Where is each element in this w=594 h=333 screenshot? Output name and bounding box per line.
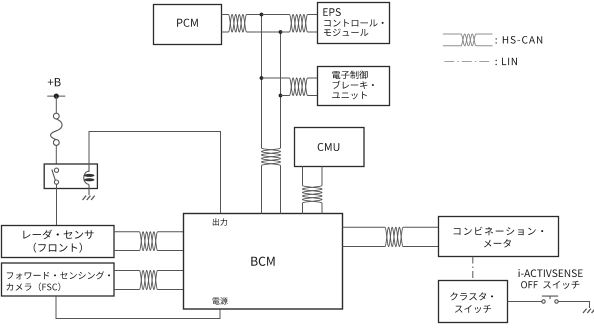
- LIN wire combination meter to cluster switch: [472, 257, 474, 282]
- wire BCM power to FSC camera: [56, 296, 220, 319]
- label brake unit line3: [332, 92, 367, 100]
- box EPS control module: [318, 3, 390, 44]
- label OFF switch line2: [521, 281, 579, 289]
- relay box: [44, 164, 97, 189]
- twisted pair radar sensor to BCM (HS-CAN): [114, 232, 184, 251]
- pin label 出力 (output): [213, 218, 227, 225]
- label radar sensor line1: [23, 230, 93, 240]
- wire BCM output to relay coil: [89, 132, 221, 214]
- legend label HS-CAN: [496, 36, 543, 44]
- box cluster switch: [439, 281, 508, 323]
- label FSC line2: [7, 283, 61, 292]
- twisted pair FSC to BCM (HS-CAN): [114, 271, 184, 290]
- label BCM: [251, 257, 274, 266]
- label combination meter line1: [454, 227, 544, 236]
- box PCM: [154, 5, 222, 45]
- label cluster switch line2: [455, 305, 491, 313]
- label CMU: [318, 143, 340, 151]
- label radar sensor line2: [34, 243, 82, 253]
- junction node on CAN-L at PCM tap: [279, 30, 283, 34]
- legend HS-CAN twisted-pair symbol: [443, 34, 493, 46]
- junction node on CAN-H at brake tap: [260, 76, 264, 80]
- label EPS line2: [324, 19, 383, 26]
- label i-ACTIVSENSE line1: [519, 269, 583, 277]
- label cluster switch line1: [450, 292, 493, 300]
- label FSC line1: [7, 271, 110, 279]
- wire cluster switch to OFF switch: [508, 301, 542, 303]
- legend LIN dash-dot line: [444, 61, 492, 63]
- twisted pair CMU to BCM: [303, 167, 323, 214]
- box radar sensor (front): [2, 226, 115, 258]
- junction node on CAN-H at PCM tap: [260, 13, 264, 17]
- wire OFF switch to ground: [558, 302, 589, 309]
- label EPS line3: [324, 29, 369, 37]
- wire +B to breaker: [55, 96, 57, 113]
- ground under relay coil: [83, 196, 87, 200]
- wire relay switch to radar sensor: [56, 184, 58, 225]
- ground at OFF switch: [583, 309, 587, 313]
- relay coil: [84, 164, 95, 189]
- CAN bus vertical pair: [262, 15, 281, 214]
- junction node on CAN-L at brake tap: [279, 94, 283, 98]
- twisted pair PCM to CAN junction: [222, 15, 281, 33]
- circuit breaker (fusible link): [51, 113, 63, 145]
- label brake unit line1: [332, 71, 368, 80]
- wire relay coil to ground: [88, 189, 90, 196]
- label combination meter line2: [484, 239, 511, 247]
- box electronic brake control unit: [318, 67, 390, 106]
- box forward sensing camera: [2, 263, 115, 296]
- push switch i-ACTIVSENSE OFF: [542, 296, 558, 303]
- node +B battery supply: [47, 78, 65, 99]
- pin label 電源 (power): [213, 297, 228, 304]
- wire breaker to relay: [55, 145, 57, 164]
- box BCM: [184, 214, 343, 310]
- label EPS line1: [323, 8, 340, 16]
- legend label LIN: [496, 58, 518, 65]
- twisted pair BCM to combination meter: [343, 227, 439, 246]
- label brake unit line2: [333, 81, 374, 89]
- box combination meter: [439, 217, 559, 257]
- box CMU: [295, 128, 365, 167]
- label PCM: [177, 19, 198, 27]
- twisted pair CAN bus to EPS control module: [262, 15, 318, 33]
- twisted pair CAN bus to brake unit: [262, 78, 318, 96]
- relay switch contact: [52, 168, 59, 184]
